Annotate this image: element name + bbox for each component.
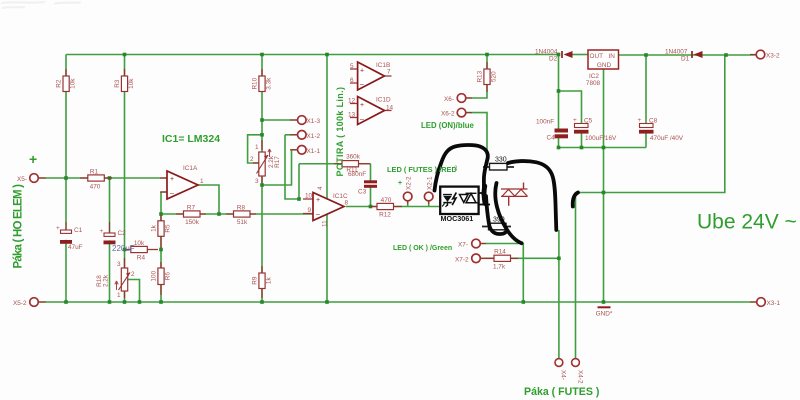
- svg-text:–: –: [170, 191, 174, 198]
- svg-text:X1-3: X1-3: [307, 118, 321, 125]
- svg-text:–: –: [316, 212, 320, 219]
- resistor 390 (black): [482, 217, 511, 230]
- wire: X1-2 row: [285, 134, 298, 136]
- wire: IC1A output jog: [198, 185, 219, 214]
- svg-text:11: 11: [322, 220, 329, 227]
- svg-text:X5-2: X5-2: [13, 300, 27, 307]
- svg-text:R4: R4: [137, 255, 146, 262]
- svg-text:1: 1: [255, 144, 259, 151]
- resistor R13: [477, 62, 498, 92]
- wire: X2-1 stub down: [428, 201, 430, 207]
- svg-text:2.2k: 2.2k: [103, 274, 110, 287]
- capacitor C2: [100, 222, 135, 253]
- svg-text:C2: C2: [118, 230, 127, 237]
- black scribble: big arch: [435, 145, 488, 194]
- wire: left column x=66 R2/C1: [65, 55, 67, 303]
- resistor R6: [151, 262, 172, 295]
- wire: R3/R18 column: [124, 55, 126, 303]
- resistor R8: [226, 205, 256, 227]
- terminal X3-1: [750, 298, 780, 307]
- svg-text:+: +: [316, 197, 320, 204]
- svg-text:–: –: [360, 116, 364, 123]
- terminal X2-1: [424, 176, 433, 204]
- svg-text:IN: IN: [609, 53, 616, 60]
- triac: [501, 183, 528, 206]
- resistor R1: [80, 169, 112, 191]
- capacitor C5: [573, 117, 617, 142]
- black scribble: down to X7 wire: [495, 183, 521, 243]
- black scribble: blob on box corner: [482, 186, 488, 204]
- svg-text:100: 100: [151, 270, 158, 281]
- terminal X4-: [555, 359, 567, 380]
- resistor R3: [114, 69, 135, 92]
- terminal X7-2: [455, 254, 486, 263]
- wire: bottom rail: [38, 301, 757, 303]
- black scribble: down left of 390: [486, 196, 506, 234]
- terminal X6-: [444, 94, 472, 103]
- svg-text:13: 13: [348, 112, 356, 119]
- svg-text:R6: R6: [165, 272, 172, 281]
- diode D1 1N4007: [665, 49, 703, 63]
- svg-text:POTIRA ( 100k Lin.): POTIRA ( 100k Lin.): [335, 87, 345, 177]
- wire: feedback drop to +input: [298, 164, 300, 199]
- svg-text:14: 14: [386, 105, 394, 112]
- svg-text:3: 3: [255, 178, 259, 185]
- wire: top supply rail: [38, 55, 757, 359]
- wire: X2-2 stub down: [407, 201, 409, 207]
- svg-text:+: +: [56, 225, 60, 232]
- svg-text:X5-: X5-: [17, 176, 27, 183]
- black scribble: hook on load corner: [573, 193, 578, 207]
- svg-text:LED ( OK ) /Green: LED ( OK ) /Green: [393, 245, 452, 252]
- svg-text:R7: R7: [187, 205, 196, 212]
- resistor R12: [370, 197, 402, 219]
- svg-text:7: 7: [387, 69, 391, 76]
- resistor R7: [176, 205, 206, 227]
- svg-text:1k: 1k: [266, 277, 273, 285]
- wire: X6-2 drop: [466, 113, 487, 163]
- svg-text:1: 1: [200, 178, 204, 185]
- wire: X7- drop to rail: [481, 244, 524, 303]
- svg-text:R14: R14: [494, 249, 506, 256]
- svg-text:10k: 10k: [128, 78, 135, 89]
- svg-text:GND: GND: [597, 62, 612, 69]
- svg-text:470: 470: [381, 197, 392, 204]
- resistor R11: [334, 154, 371, 174]
- svg-text:C8: C8: [649, 118, 658, 125]
- svg-text:+: +: [573, 117, 577, 124]
- wire: R17 wiper loop: [248, 135, 262, 163]
- op-amp IC1D: [348, 97, 394, 125]
- regulator IC2 7808: [586, 50, 619, 87]
- svg-text:Páka ( HO ELEM ): Páka ( HO ELEM ): [13, 184, 25, 269]
- svg-text:X1-2: X1-2: [307, 133, 321, 140]
- svg-text:R1: R1: [90, 169, 99, 176]
- wire: load line to X3-2: [576, 55, 725, 193]
- svg-text:X3-1: X3-1: [767, 300, 781, 307]
- svg-text:D1: D1: [681, 56, 690, 63]
- svg-text:–: –: [360, 82, 364, 89]
- svg-text:R17: R17: [274, 156, 281, 168]
- resistor R14: [486, 249, 518, 271]
- svg-text:X2-1: X2-1: [427, 176, 434, 190]
- svg-text:LED (ON)/blue: LED (ON)/blue: [421, 121, 475, 130]
- capacitor C4: [536, 119, 569, 142]
- svg-text:X2-2: X2-2: [406, 176, 413, 190]
- wire: X5 input row: [38, 177, 167, 179]
- resistor R10: [252, 69, 273, 92]
- terminal X1-2: [290, 131, 320, 140]
- svg-text:5: 5: [350, 63, 354, 70]
- svg-text:X7-2: X7-2: [455, 256, 469, 263]
- terminal X5-: [17, 174, 46, 183]
- svg-text:C5: C5: [584, 118, 593, 125]
- terminal X6-2: [441, 108, 472, 117]
- wire: C3 column: [370, 164, 372, 207]
- svg-text:R13: R13: [477, 70, 484, 82]
- resistor R4: [126, 240, 158, 262]
- wire: D2 column: [558, 55, 560, 148]
- svg-text:R8: R8: [237, 205, 246, 212]
- svg-text:100nF: 100nF: [536, 119, 554, 126]
- wire: R13 column: [466, 55, 487, 99]
- wire: GND column: [603, 69, 605, 302]
- svg-text:+: +: [170, 176, 174, 183]
- wire: X1-1 row: [292, 149, 298, 151]
- terminal X1-1: [290, 146, 320, 155]
- svg-text:R10: R10: [252, 77, 259, 89]
- svg-text:2: 2: [250, 156, 254, 163]
- wire: C8 column: [645, 55, 647, 148]
- svg-text:Páka ( FUTES ): Páka ( FUTES ): [524, 386, 599, 398]
- svg-text:1N4004: 1N4004: [535, 49, 558, 56]
- svg-text:C1: C1: [74, 227, 83, 234]
- svg-text:R9: R9: [252, 276, 259, 285]
- svg-text:1,7k: 1,7k: [493, 264, 506, 271]
- resistor R2: [56, 69, 77, 92]
- svg-text:X6-: X6-: [444, 96, 454, 103]
- terminal X3-2: [750, 50, 780, 59]
- svg-text:12: 12: [348, 98, 356, 105]
- svg-text:X4-: X4-: [560, 370, 567, 380]
- ground GND*: [596, 307, 613, 317]
- svg-text:D2: D2: [549, 56, 558, 63]
- svg-text:Ube 24V ~: Ube 24V ~: [697, 211, 797, 234]
- svg-text:8: 8: [345, 200, 349, 207]
- svg-text:1: 1: [117, 292, 121, 299]
- svg-text:R12: R12: [379, 212, 391, 219]
- op-amp IC1A: [160, 165, 204, 199]
- svg-text:10k: 10k: [70, 78, 77, 89]
- wire: R10/R17/R9 column: [261, 55, 263, 303]
- svg-text:+: +: [360, 102, 364, 109]
- svg-text:470: 470: [90, 184, 101, 191]
- svg-text:X1-1: X1-1: [307, 148, 321, 155]
- svg-text:MOC3061: MOC3061: [441, 214, 474, 223]
- wire: IC1C power/gnd column: [326, 55, 328, 303]
- wire: C5 branch: [559, 91, 582, 148]
- svg-text:+: +: [638, 117, 642, 124]
- wire: R7/R8 row: [161, 213, 313, 215]
- svg-text:C4: C4: [547, 135, 556, 142]
- svg-text:7808: 7808: [586, 80, 601, 87]
- svg-text:6: 6: [350, 77, 354, 84]
- svg-text:X7-: X7-: [458, 242, 468, 249]
- terminal X5-2: [13, 298, 46, 307]
- svg-text:3: 3: [117, 261, 121, 268]
- wire: R18 wiper drop: [128, 280, 140, 303]
- capacitor C8: [638, 117, 684, 142]
- wire: X7-2/R14 row: [481, 257, 559, 259]
- svg-text:150k: 150k: [185, 219, 200, 226]
- resistor 330 (black): [483, 157, 514, 171]
- capacitor C3: [348, 171, 379, 196]
- wire: X4- column: [558, 230, 560, 358]
- svg-text:LED ( FUTES ) /RED: LED ( FUTES ) /RED: [387, 165, 457, 174]
- op-amp IC1C: [303, 186, 349, 227]
- svg-text:IC1= LM324: IC1= LM324: [162, 133, 220, 145]
- svg-text:IC2: IC2: [589, 73, 599, 80]
- svg-text:360k: 360k: [346, 154, 361, 161]
- wire: feedback row: [299, 163, 371, 165]
- resistor R9: [252, 266, 273, 298]
- svg-text:100uF/16V: 100uF/16V: [585, 135, 617, 142]
- terminal X7-: [458, 239, 486, 248]
- svg-text:C3: C3: [358, 189, 367, 196]
- resistor R5: [151, 215, 172, 248]
- svg-text:X6-2: X6-2: [441, 111, 455, 118]
- wire: X1-1 drop: [262, 150, 292, 185]
- svg-text:10: 10: [305, 193, 313, 200]
- svg-text:R2: R2: [56, 79, 63, 88]
- wire: regulator output row: [573, 54, 589, 56]
- svg-text:+: +: [360, 68, 364, 75]
- svg-text:9: 9: [308, 207, 312, 214]
- svg-text:3.3k: 3.3k: [266, 77, 273, 90]
- svg-text:R5: R5: [165, 224, 172, 233]
- svg-text:680nF: 680nF: [348, 171, 366, 178]
- svg-text:IC1D: IC1D: [376, 97, 391, 104]
- wire: regulator input row: [619, 54, 757, 56]
- svg-text:47uF: 47uF: [68, 244, 83, 251]
- wire: output/R12 row: [346, 206, 440, 208]
- diode D2 1N4004: [535, 49, 573, 63]
- wire: C2 column: [109, 178, 111, 302]
- svg-text:220uF: 220uF: [112, 244, 135, 253]
- wire: X1-2 drop: [285, 135, 299, 199]
- wire: cap ground rail: [559, 147, 647, 149]
- svg-text:IC1A: IC1A: [183, 165, 198, 172]
- svg-text:GND*: GND*: [596, 311, 613, 318]
- op-amp IC1B: [350, 62, 392, 90]
- svg-text:2: 2: [131, 271, 135, 278]
- optocoupler MOC3061: [440, 187, 490, 223]
- svg-text:1N4007: 1N4007: [665, 49, 688, 56]
- wire: X1-3 row: [262, 119, 298, 121]
- svg-text:330: 330: [495, 157, 507, 164]
- svg-text:X4-2: X4-2: [577, 370, 584, 384]
- trimmer R17: [250, 140, 281, 185]
- svg-text:R3: R3: [114, 79, 121, 88]
- wire: X4-2 column: [575, 196, 577, 358]
- svg-text:470uF /40V: 470uF /40V: [650, 135, 684, 142]
- svg-text:1k: 1k: [151, 224, 158, 232]
- black scribble: right arc from 330: [508, 161, 556, 230]
- terminal X1-3: [290, 116, 320, 125]
- svg-text:+: +: [100, 228, 104, 235]
- terminal X4-2: [572, 359, 584, 384]
- svg-text:X3-2: X3-2: [766, 53, 780, 60]
- capacitor C1: [56, 222, 83, 251]
- svg-text:51k: 51k: [237, 219, 248, 226]
- svg-text:10k: 10k: [134, 240, 145, 247]
- trimmer R18: [96, 258, 135, 299]
- svg-text:OUT: OUT: [590, 53, 604, 60]
- svg-text:+: +: [398, 180, 402, 187]
- svg-text:4: 4: [317, 186, 324, 190]
- svg-text:520: 520: [491, 71, 498, 82]
- terminal X2-2: [398, 176, 413, 204]
- svg-text:+: +: [29, 151, 37, 167]
- wire: R5/R6 column: [161, 192, 166, 302]
